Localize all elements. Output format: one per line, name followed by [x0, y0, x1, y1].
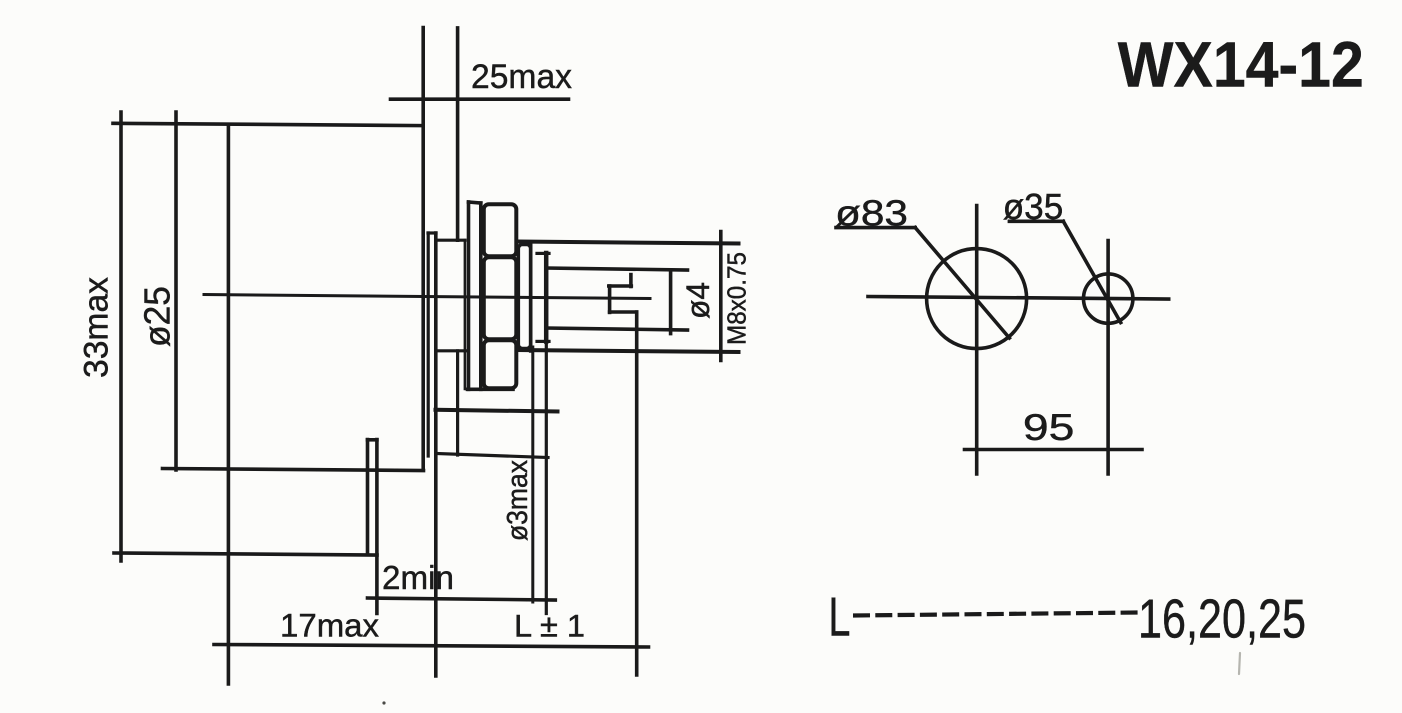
svg-text:95: 95 — [1023, 407, 1075, 448]
svg-text:WX14-12: WX14-12 — [1118, 29, 1364, 101]
svg-text:ø25: ø25 — [137, 286, 178, 347]
svg-text:2min: 2min — [382, 559, 454, 596]
svg-text:33max: 33max — [78, 277, 116, 378]
svg-text:L: L — [828, 587, 850, 648]
svg-text:ø3max: ø3max — [502, 460, 534, 541]
svg-text:L ± 1: L ± 1 — [514, 608, 585, 644]
svg-text:16,20,25: 16,20,25 — [1138, 587, 1306, 649]
svg-text:ø4: ø4 — [680, 282, 716, 319]
svg-text:25max: 25max — [471, 58, 572, 96]
svg-text:ø35: ø35 — [1003, 186, 1064, 227]
svg-text:ø83: ø83 — [835, 193, 908, 234]
svg-text:17max: 17max — [280, 608, 379, 644]
svg-text:M8x0.75: M8x0.75 — [722, 252, 752, 345]
